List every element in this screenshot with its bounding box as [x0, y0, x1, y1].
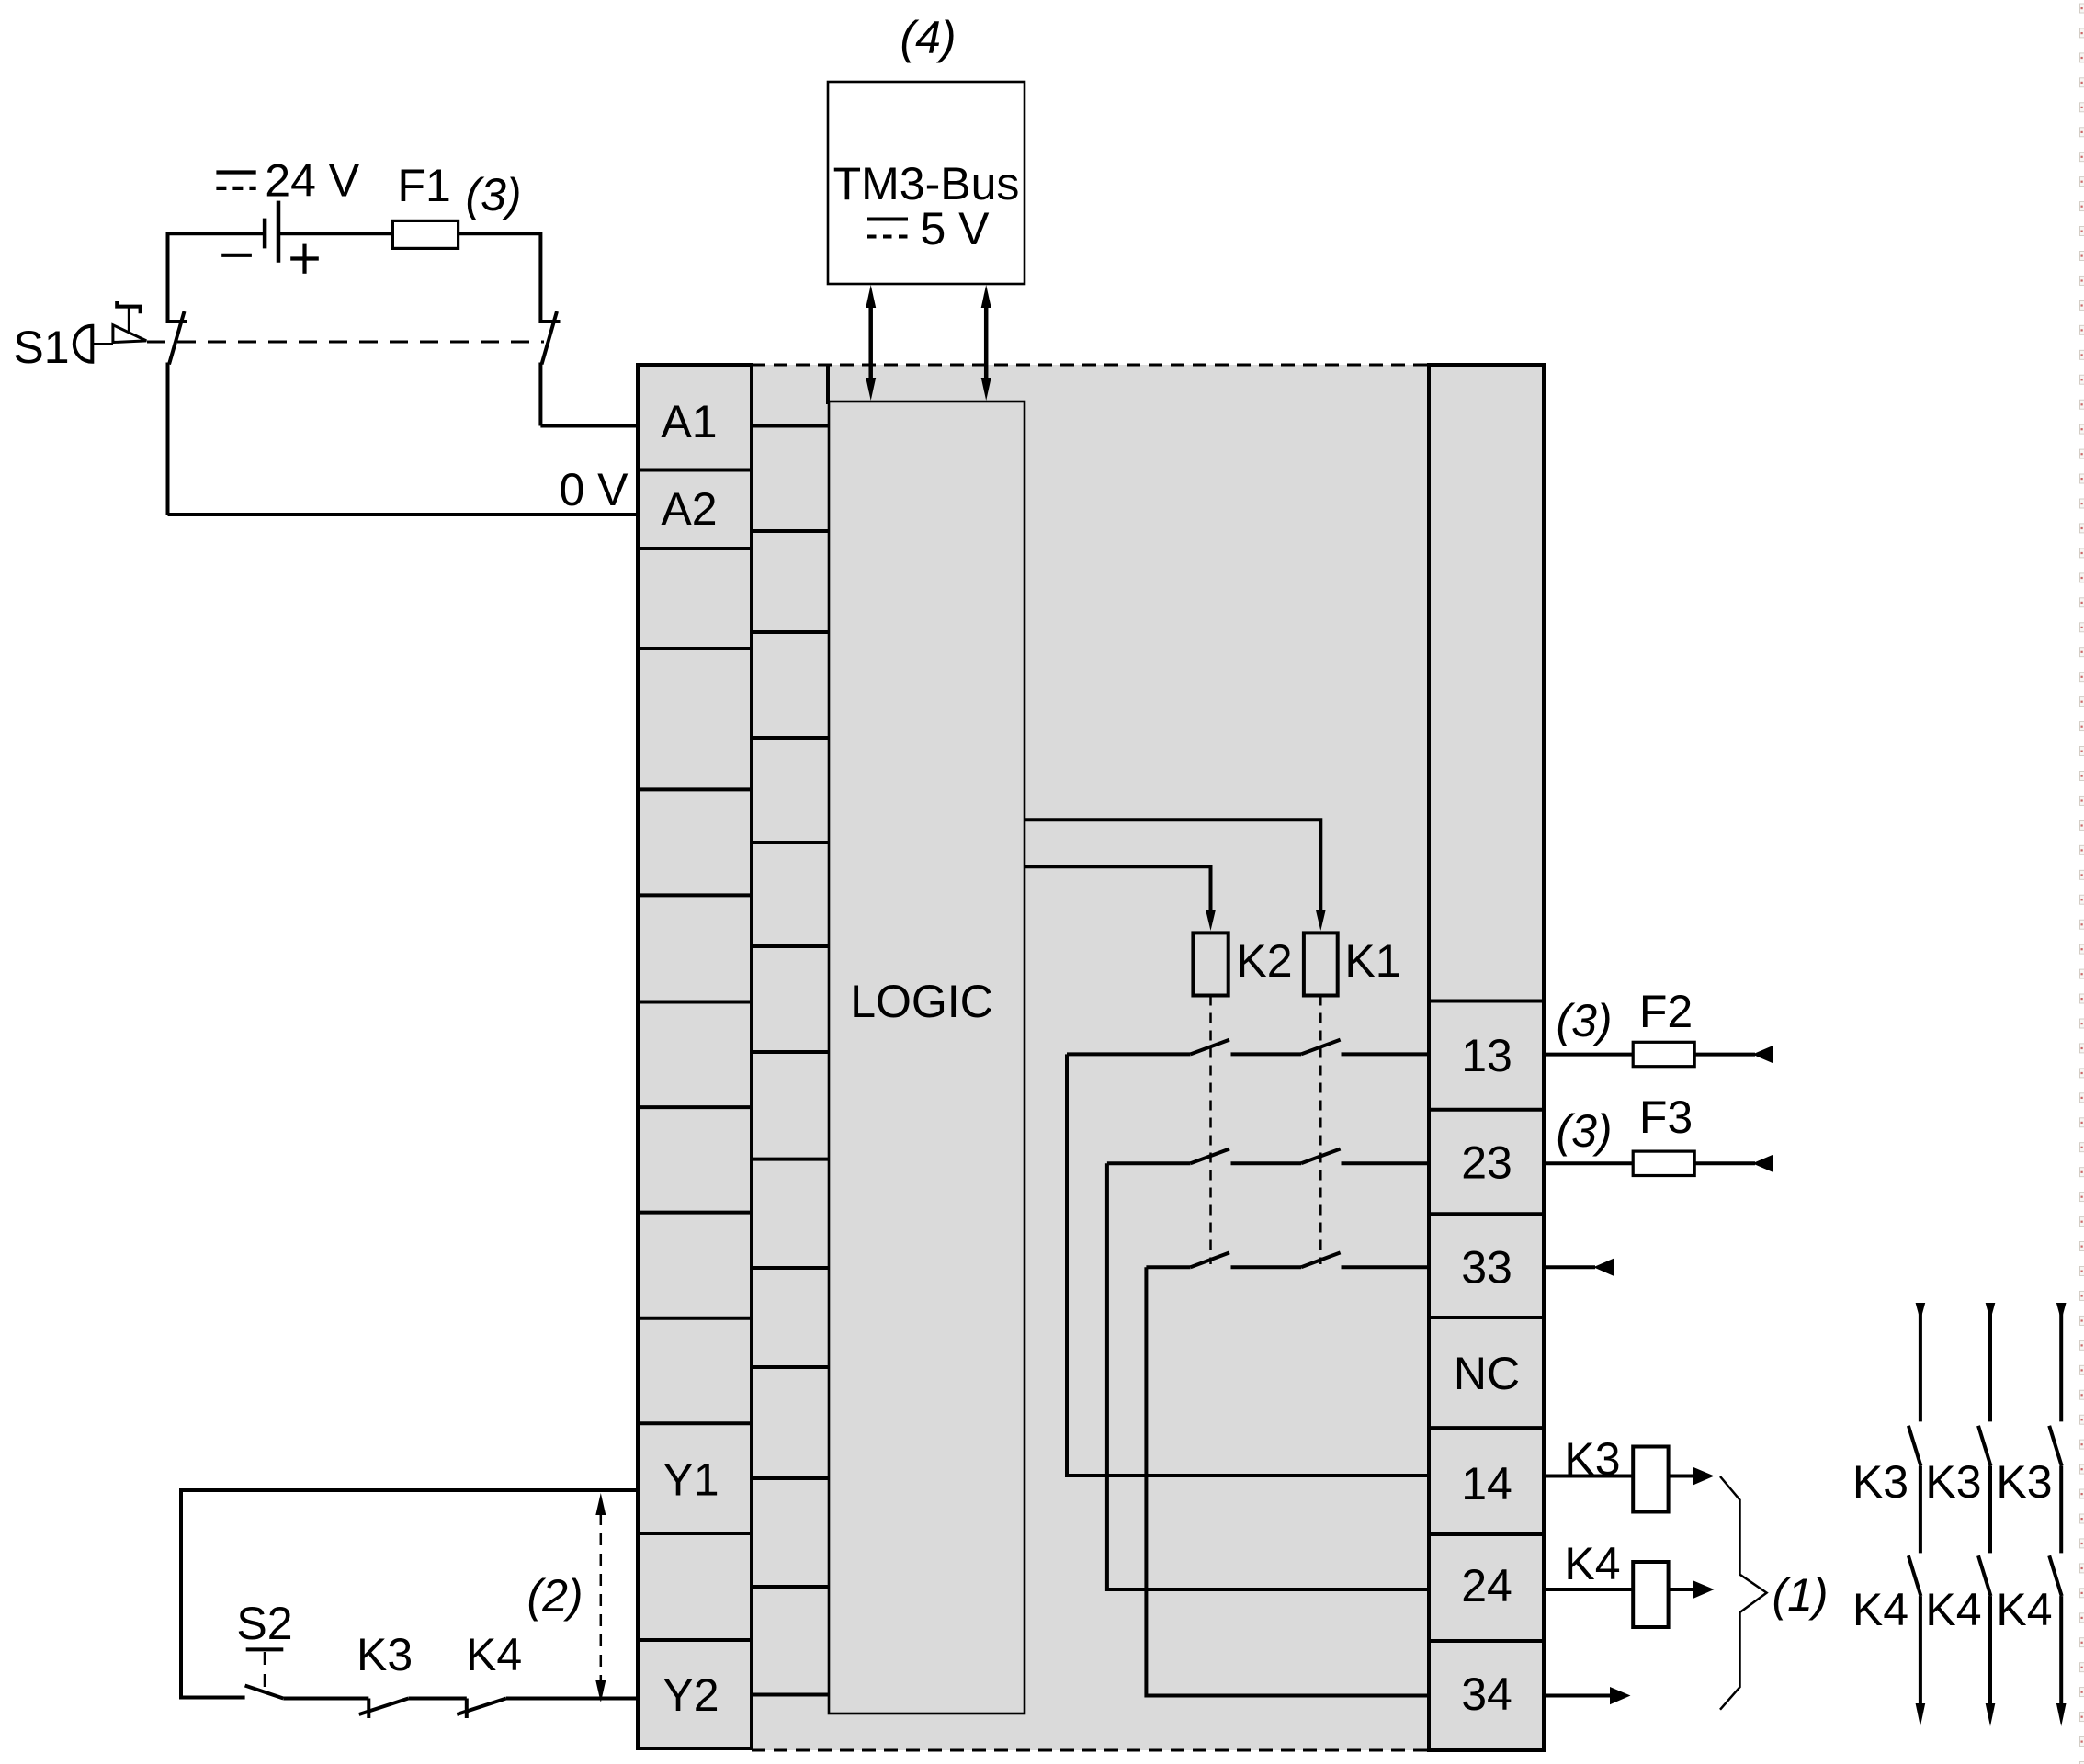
external contact chain 3	[2049, 1303, 2066, 1726]
output 14 arrow	[1669, 1475, 1696, 1478]
wire fuse F1 to right corner	[459, 232, 541, 235]
svg-text:F1: F1	[398, 160, 451, 211]
svg-text:LOGIC: LOGIC	[850, 976, 993, 1027]
svg-text:(2): (2)	[527, 1570, 583, 1622]
feed wire to terminal 34	[1146, 1267, 1429, 1695]
relay coil K3	[1633, 1447, 1668, 1512]
battery B1	[265, 201, 278, 263]
svg-text:K4: K4	[1852, 1584, 1908, 1635]
svg-text:NC: NC	[1454, 1348, 1520, 1399]
S1 plunger mark	[117, 301, 140, 313]
output 13 arrowhead	[1752, 1046, 1773, 1063]
svg-text:Y2: Y2	[663, 1669, 719, 1721]
svg-text:14: 14	[1461, 1458, 1512, 1510]
safety module body (gray)	[638, 365, 1544, 1750]
svg-text:34: 34	[1461, 1668, 1512, 1720]
brace grouping outputs	[1720, 1476, 1767, 1710]
svg-text:24 V: 24 V	[265, 154, 360, 206]
svg-text:13: 13	[1461, 1030, 1512, 1081]
output 14 wire	[1544, 1475, 1633, 1478]
broken-image artifact column at right edge	[2080, 4, 2084, 1764]
svg-text:24: 24	[1461, 1560, 1512, 1611]
svg-text:5 V: 5 V	[920, 203, 990, 254]
K3 feedback contact	[367, 1699, 370, 1719]
feed wire to terminal 14	[1067, 1054, 1429, 1476]
svg-text:K3: K3	[1996, 1456, 2052, 1508]
wire K3 to K4 contact	[408, 1697, 466, 1701]
output 34 wire	[1544, 1694, 1611, 1698]
output 24 arrow	[1669, 1588, 1696, 1591]
feed wire to terminal 24	[1107, 1163, 1429, 1589]
svg-text:K4: K4	[1564, 1538, 1620, 1589]
wire battery to fuse F1	[278, 232, 392, 235]
wire K4 to terminal Y2	[506, 1697, 638, 1701]
S1 mushroom head actuator	[74, 326, 93, 362]
battery minus sign	[221, 254, 252, 257]
output 13 wire	[1544, 1053, 1633, 1057]
fuse F2	[1633, 1042, 1694, 1066]
svg-text:K3: K3	[1564, 1433, 1620, 1485]
svg-text:0 V: 0 V	[559, 464, 629, 515]
output 23 wire	[1544, 1161, 1633, 1165]
svg-text:(1): (1)	[1772, 1569, 1828, 1621]
S1 pole 2 upper conductor	[538, 232, 542, 323]
svg-text:23: 23	[1461, 1137, 1512, 1189]
wire Y1 circuit top	[181, 1490, 638, 1698]
S1 pole 2 lower conductor	[538, 363, 542, 426]
bus arrow 1 (double headed)	[866, 285, 876, 401]
svg-text:(3): (3)	[465, 169, 521, 220]
S1 pole 2 blade	[542, 311, 558, 365]
svg-text:(3): (3)	[1556, 1105, 1612, 1157]
TM3-Bus box	[828, 82, 1025, 284]
module dashed border top	[752, 364, 1429, 367]
S1 pole 1 upper conductor	[166, 232, 170, 323]
output 24 wire	[1544, 1588, 1633, 1591]
K2 contact link dashed line	[1209, 996, 1212, 1265]
S2 contact blade	[245, 1686, 284, 1699]
DC symbol 5 V	[867, 220, 908, 237]
svg-text:F2: F2	[1639, 986, 1693, 1037]
output 34 arrowhead	[1610, 1687, 1631, 1704]
svg-text:33: 33	[1461, 1242, 1512, 1294]
svg-text:K3: K3	[357, 1629, 413, 1680]
relay coil K1	[1304, 933, 1338, 995]
module dashed border bottom	[752, 1749, 1429, 1752]
S1 pole 1 foot	[168, 320, 188, 323]
wire battery left to corner	[168, 232, 264, 235]
fuse F1	[392, 220, 458, 248]
wire S2 to K3 contact	[283, 1697, 368, 1701]
S2 plunger	[246, 1647, 284, 1651]
relay coil K2	[1193, 933, 1228, 995]
output 23 arrowhead	[1752, 1155, 1773, 1172]
external contact chain 1	[1908, 1303, 1925, 1726]
S1 pole 1 lower conductor	[166, 363, 170, 515]
svg-text:TM3-Bus: TM3-Bus	[833, 158, 1020, 209]
wire LOGIC to relay K1	[1025, 820, 1320, 911]
output 33 wire	[1544, 1265, 1595, 1269]
wire LOGIC to relay K2	[1025, 866, 1211, 911]
svg-text:K2: K2	[1236, 935, 1292, 987]
S1 actuator link line	[92, 343, 113, 345]
external contact chain 2	[1978, 1303, 1995, 1726]
contact row for terminal 33	[1146, 1252, 1429, 1267]
svg-text:(3): (3)	[1556, 995, 1612, 1046]
svg-text:A2: A2	[661, 483, 717, 535]
svg-text:K4: K4	[1996, 1584, 2052, 1635]
(2) dashed measure arrow	[595, 1493, 606, 1702]
svg-text:S2: S2	[236, 1598, 292, 1649]
S1 pole 2 foot	[540, 320, 560, 323]
relay coil K4	[1633, 1562, 1668, 1627]
DC symbol for 24 V supply	[216, 173, 255, 188]
svg-text:Y1: Y1	[663, 1454, 719, 1506]
right terminal strip	[1429, 365, 1544, 1750]
output 13 wire after fuse	[1694, 1053, 1755, 1057]
svg-text:A1: A1	[661, 396, 717, 447]
LOGIC block U1	[829, 401, 1025, 1713]
output 33 arrowhead	[1593, 1259, 1614, 1276]
S1 mechanical link dashed line	[147, 341, 544, 344]
K1 contact link dashed line	[1319, 996, 1322, 1265]
contact row for terminal 13	[1067, 1040, 1429, 1055]
svg-text:K4: K4	[466, 1629, 522, 1680]
svg-text:K3: K3	[1925, 1456, 1981, 1508]
svg-text:(4): (4)	[900, 12, 956, 63]
output 23 wire after fuse	[1694, 1161, 1755, 1165]
fuse F3	[1633, 1151, 1694, 1175]
wire to terminal A1	[540, 424, 638, 428]
svg-text:K3: K3	[1852, 1456, 1908, 1508]
contact row for terminal 23	[1107, 1149, 1429, 1164]
S1 pole 1 blade	[169, 311, 185, 365]
svg-text:S1: S1	[13, 322, 69, 373]
bus arrow 2 (double headed)	[981, 285, 991, 401]
left terminal strip	[638, 365, 752, 1748]
svg-text:K4: K4	[1925, 1584, 1981, 1635]
svg-text:K1: K1	[1344, 935, 1400, 987]
K4 feedback contact	[465, 1699, 469, 1719]
svg-text:F3: F3	[1639, 1091, 1693, 1143]
inner stub column	[752, 365, 828, 1695]
wire 0 V to terminal A2	[168, 513, 639, 516]
S1 latch triangle	[113, 325, 146, 343]
battery plus sign	[290, 244, 319, 274]
